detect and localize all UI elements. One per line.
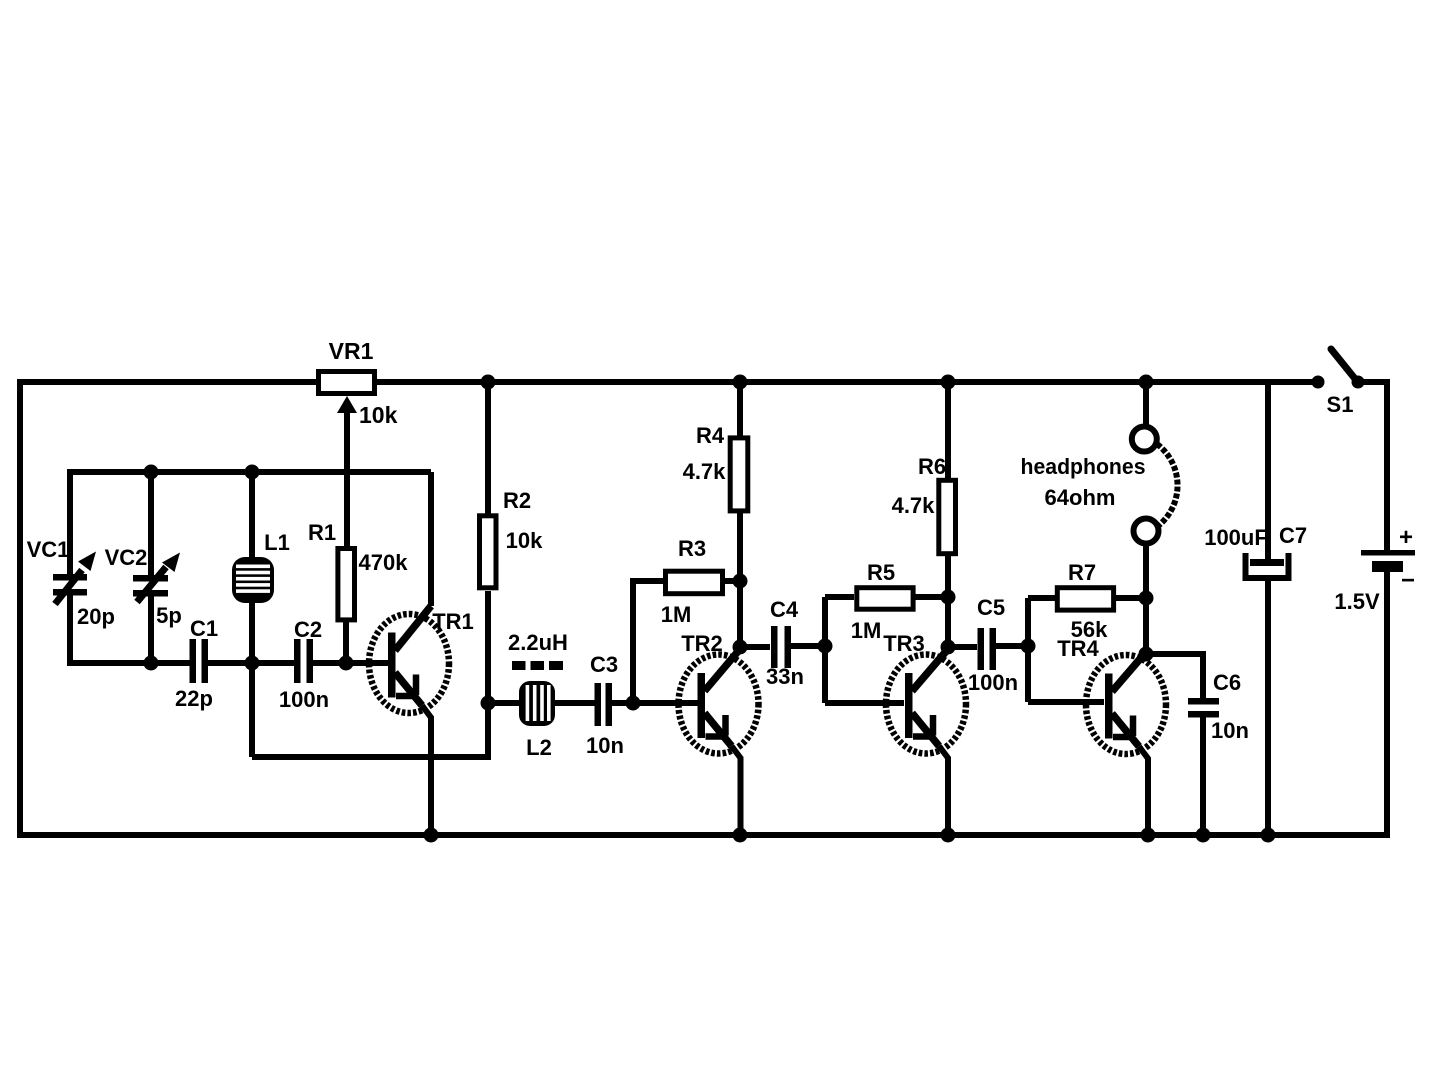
- wire: VR1 wiper to R1: [344, 408, 350, 546]
- transistor TR3: [886, 649, 966, 835]
- node: tank top / VC2: [144, 465, 159, 480]
- svg-text:−: −: [1401, 567, 1415, 594]
- transistor TR2: [679, 649, 759, 835]
- wire: R6 bottom to TR3 collector node: [945, 551, 951, 650]
- svg-text:C1: C1: [190, 616, 218, 641]
- wire: base wire C2 to TR1 base: [312, 660, 390, 666]
- node: TR3 collector / C5: [941, 640, 956, 655]
- node: R3 / R4: [733, 574, 748, 589]
- resistor R6: [939, 480, 956, 553]
- svg-text:R2: R2: [503, 488, 531, 513]
- svg-text:VR1: VR1: [329, 338, 374, 364]
- capacitor C6: [1188, 698, 1219, 718]
- wire: riser to TR4 base: [1028, 699, 1104, 705]
- svg-text:R4: R4: [696, 423, 725, 448]
- wire: battery negative to bottom rail: [1384, 572, 1390, 838]
- resistor R7: [1057, 588, 1113, 610]
- potentiometer VR1: [319, 372, 375, 547]
- wire: R7 left lead: [1028, 595, 1055, 601]
- node: tank top / L1: [245, 465, 260, 480]
- svg-text:1.5V: 1.5V: [1334, 589, 1380, 614]
- svg-text:VC2: VC2: [105, 545, 148, 570]
- node: base wire / R1: [339, 656, 354, 671]
- node: C4 / R5 riser: [818, 639, 833, 654]
- svg-text:TR4: TR4: [1057, 636, 1099, 661]
- node: R7 / headphones: [1139, 591, 1154, 606]
- node: bottom rail / TR1 emitter: [424, 828, 439, 843]
- svg-text:22p: 22p: [175, 686, 213, 711]
- wire: C7 top lead: [1265, 382, 1271, 560]
- node: base wire / VC2: [144, 656, 159, 671]
- variable capacitor VC2: [133, 553, 180, 603]
- svg-text:TR3: TR3: [883, 631, 925, 656]
- switch S1: [1312, 349, 1365, 389]
- wire: TR4 collector node to C6: [1146, 654, 1203, 698]
- svg-text:100uF: 100uF: [1204, 525, 1268, 550]
- node: top rail / headphones: [1139, 375, 1154, 390]
- wire: top supply rail: [20, 379, 1315, 385]
- svg-text:C2: C2: [294, 617, 322, 642]
- L2 core dashes: [512, 661, 563, 670]
- resistor R3: [666, 571, 723, 594]
- node: bottom rail / TR4 emitter: [1141, 828, 1156, 843]
- wire: R6 top lead: [945, 382, 951, 479]
- wire: R4 bottom to TR2 collector node: [737, 508, 743, 650]
- wire: L1 branch vertical: [249, 472, 255, 757]
- wire: coupling riser TR2-TR3: [822, 597, 828, 703]
- wire: R3 right lead: [724, 578, 740, 584]
- wire: tank bottom / base wire segment VC1 to C1: [67, 660, 190, 666]
- wire: C3 to TR2 base: [611, 700, 700, 706]
- svg-text:100n: 100n: [279, 687, 329, 712]
- wire: riser to TR3 base: [825, 700, 904, 706]
- svg-text:1M: 1M: [851, 618, 882, 643]
- svg-text:5p: 5p: [156, 603, 182, 628]
- svg-text:470k: 470k: [359, 550, 409, 575]
- resistor R5: [857, 588, 913, 610]
- wire: L2 to C3: [554, 700, 595, 706]
- resistor R1: [338, 549, 355, 620]
- capacitor C5: [978, 628, 997, 670]
- wire: R4 top lead: [737, 382, 743, 438]
- node: top rail / R6: [941, 375, 956, 390]
- resistor R4: [730, 438, 748, 511]
- wire: TR1 collector riser from tank: [428, 472, 434, 606]
- headphones symbol: [1132, 427, 1178, 544]
- capacitor C1: [190, 639, 209, 683]
- wire: headphones bottom lead to R7 node and TR4 collector: [1143, 544, 1149, 656]
- svg-text:headphones: headphones: [1021, 454, 1146, 479]
- node: TR2 collector / C4: [733, 640, 748, 655]
- svg-text:R7: R7: [1068, 560, 1096, 585]
- wire: C6 bottom lead: [1200, 717, 1206, 835]
- svg-text:100n: 100n: [968, 670, 1018, 695]
- svg-text:2.2uH: 2.2uH: [508, 630, 568, 655]
- svg-text:C6: C6: [1213, 670, 1241, 695]
- node: bottom rail / TR3 emitter: [941, 828, 956, 843]
- svg-text:1M: 1M: [661, 602, 692, 627]
- battery 1.5V: [1361, 550, 1415, 572]
- svg-text:R5: R5: [867, 560, 895, 585]
- svg-text:C5: C5: [977, 595, 1005, 620]
- wire: R3 left loop: [633, 581, 663, 703]
- node: TR4 collector / C6: [1139, 647, 1154, 662]
- wire: headphones top lead: [1143, 382, 1149, 427]
- wire: TR3 collector node to C5: [948, 644, 977, 650]
- svg-text:10n: 10n: [1211, 718, 1249, 743]
- wire: R2 bottom lead to L2 node: [485, 591, 491, 703]
- wire: R2 top lead: [485, 382, 491, 515]
- node: TR2 base / R3: [626, 696, 641, 711]
- wire: R5 left lead: [825, 594, 854, 600]
- capacitor C3: [595, 683, 613, 726]
- svg-text:10n: 10n: [586, 733, 624, 758]
- wire: C4 to riser: [791, 643, 825, 649]
- wire: bottom ground rail: [17, 832, 1387, 838]
- svg-text:33n: 33n: [766, 664, 804, 689]
- svg-text:L2: L2: [526, 735, 552, 760]
- wire: tank box top edge: [70, 469, 431, 475]
- inductor L2: [519, 681, 555, 726]
- svg-text:TR1: TR1: [432, 609, 474, 634]
- svg-text:R6: R6: [918, 454, 946, 479]
- svg-text:VC1: VC1: [27, 537, 70, 562]
- svg-text:10k: 10k: [506, 528, 543, 553]
- svg-text:C7: C7: [1279, 523, 1307, 548]
- svg-text:S1: S1: [1327, 392, 1354, 417]
- node: base wire / L1: [245, 656, 260, 671]
- wire: S1 to battery top corner: [1358, 382, 1387, 550]
- wire: C7 bottom lead: [1265, 580, 1271, 835]
- svg-text:4.7k: 4.7k: [892, 493, 936, 518]
- capacitor C2: [294, 639, 313, 683]
- svg-text:C4: C4: [770, 597, 799, 622]
- wire: R5 right lead: [912, 594, 948, 600]
- svg-text:C3: C3: [590, 652, 618, 677]
- capacitor C4: [771, 626, 791, 668]
- svg-text:TR2: TR2: [681, 631, 723, 656]
- wire: R1 bottom lead: [343, 620, 349, 663]
- node: bottom rail / C7: [1261, 828, 1276, 843]
- wire: L2 node to coil: [488, 700, 521, 706]
- wire: TR2 collector node to C4: [740, 644, 770, 650]
- svg-text:+: +: [1399, 524, 1413, 551]
- wire: VC1 branch vertical: [67, 469, 73, 666]
- svg-text:R1: R1: [308, 520, 336, 545]
- wire: feedback wire L1 bottom to L2 node: [252, 703, 488, 757]
- svg-text:R3: R3: [678, 536, 706, 561]
- svg-text:L1: L1: [264, 530, 290, 555]
- node: top rail / R4: [733, 375, 748, 390]
- svg-text:64ohm: 64ohm: [1045, 485, 1116, 510]
- transistor TR4: [1086, 652, 1166, 835]
- node: R5 / R6: [941, 590, 956, 605]
- resistor R2: [480, 516, 497, 588]
- svg-text:10k: 10k: [359, 402, 398, 428]
- capacitor C7 (electrolytic): [1246, 553, 1289, 578]
- node: bottom rail / TR2 emitter: [733, 828, 748, 843]
- node: C5 / R7 riser: [1021, 639, 1036, 654]
- wire: R7 right lead: [1114, 595, 1146, 601]
- wire: C5 to riser: [996, 643, 1028, 649]
- node: L2 / R2 / feedback: [481, 696, 496, 711]
- transistor TR1: [369, 606, 449, 835]
- wire: base wire C1 to C2: [207, 660, 295, 666]
- variable capacitor VC1: [53, 552, 96, 605]
- node: bottom rail / C6: [1196, 828, 1211, 843]
- wire: left rail: [17, 379, 23, 838]
- svg-text:20p: 20p: [77, 604, 115, 629]
- wire: VC2 branch vertical: [148, 472, 154, 666]
- inductor L1: [232, 557, 274, 603]
- node: top rail / R2: [481, 375, 496, 390]
- wire: coupling riser TR3-TR4: [1025, 598, 1031, 702]
- svg-text:4.7k: 4.7k: [683, 459, 727, 484]
